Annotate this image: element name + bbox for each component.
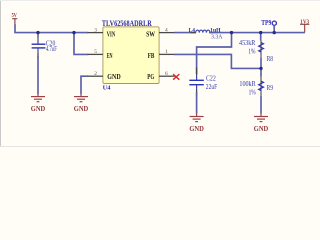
svg-text:GND: GND bbox=[254, 124, 269, 133]
node junction C20 tap bbox=[36, 31, 39, 34]
no connect X on PG bbox=[173, 74, 179, 80]
svg-text:C22: C22 bbox=[206, 75, 216, 82]
svg-text:5: 5 bbox=[94, 49, 97, 55]
wire C20 to ground bbox=[37, 56, 39, 94]
pin 1 FB bbox=[159, 49, 175, 55]
svg-text:3.3A: 3.3A bbox=[211, 34, 223, 41]
svg-text:PG: PG bbox=[147, 72, 154, 81]
node junction R8 tap bbox=[259, 31, 262, 34]
wire C22 to ground bbox=[196, 93, 198, 114]
wire R8 bottom lead bbox=[260, 58, 262, 68]
svg-text:U4: U4 bbox=[103, 85, 112, 92]
svg-text:3: 3 bbox=[94, 27, 97, 33]
svg-text:453kR: 453kR bbox=[239, 40, 256, 47]
wire inductor to 1V3 bbox=[209, 32, 305, 34]
svg-text:L4: L4 bbox=[189, 27, 195, 34]
svg-text:22uF: 22uF bbox=[206, 84, 218, 91]
wire FB net bbox=[174, 54, 261, 68]
wire R9 top lead bbox=[260, 68, 262, 76]
wire 5V vertical bbox=[14, 24, 16, 33]
svg-text:2: 2 bbox=[94, 71, 97, 77]
power port 5V bbox=[12, 13, 18, 24]
pin 6 PG bbox=[159, 71, 175, 77]
regulator U4 body bbox=[103, 27, 159, 84]
pin 5 EN bbox=[88, 49, 103, 55]
test point TP9 bbox=[261, 19, 276, 33]
resistor R8 bbox=[259, 40, 264, 58]
svg-text:GND: GND bbox=[74, 104, 89, 113]
ground below C20 bbox=[31, 93, 46, 113]
capacitor C20 bbox=[32, 33, 46, 57]
svg-text:1: 1 bbox=[165, 49, 168, 55]
svg-text:TP9: TP9 bbox=[261, 19, 271, 27]
svg-text:4: 4 bbox=[165, 27, 168, 33]
pin 4 SW bbox=[159, 27, 175, 33]
svg-text:1%: 1% bbox=[249, 90, 256, 97]
svg-text:FB: FB bbox=[148, 51, 155, 60]
svg-text:R8: R8 bbox=[267, 55, 274, 63]
resistor R9 bbox=[259, 76, 264, 96]
svg-text:R9: R9 bbox=[267, 84, 274, 92]
pin 3 VIN bbox=[88, 27, 103, 33]
svg-text:GND: GND bbox=[189, 124, 204, 133]
svg-text:6: 6 bbox=[165, 71, 168, 77]
wire R8 top lead bbox=[260, 33, 262, 41]
node junction EN tap bbox=[72, 31, 75, 34]
wire EN drop bbox=[74, 33, 88, 55]
svg-text:EN: EN bbox=[107, 51, 113, 60]
svg-text:TLV62568ADRLR: TLV62568ADRLR bbox=[102, 19, 153, 28]
node junction C22 tap bbox=[230, 31, 233, 34]
svg-text:100kR: 100kR bbox=[239, 81, 256, 88]
node junction TP9 tap bbox=[273, 31, 276, 34]
svg-text:SW: SW bbox=[146, 30, 155, 39]
ground below C22 bbox=[189, 113, 204, 133]
power port 1V3 bbox=[300, 20, 309, 33]
node junction FB divider bbox=[259, 67, 262, 70]
capacitor C22 bbox=[189, 67, 204, 97]
wire GND pin 2 to ground bbox=[81, 76, 88, 94]
wire SW to inductor bbox=[174, 32, 196, 34]
svg-text:GND: GND bbox=[107, 72, 121, 81]
svg-text:GND: GND bbox=[31, 104, 46, 113]
ground below pin 2 bbox=[74, 93, 89, 113]
ground below R9 bbox=[254, 113, 269, 133]
pin 2 GND bbox=[88, 71, 103, 77]
svg-text:VIN: VIN bbox=[107, 30, 116, 39]
inductor L4 bbox=[191, 30, 215, 32]
svg-text:1%: 1% bbox=[248, 48, 255, 55]
wire C22 feed bbox=[197, 33, 232, 74]
svg-text:4.7uF: 4.7uF bbox=[46, 46, 57, 53]
wire R9 to ground bbox=[260, 96, 262, 113]
wire 5V rail to VIN bbox=[14, 32, 88, 34]
